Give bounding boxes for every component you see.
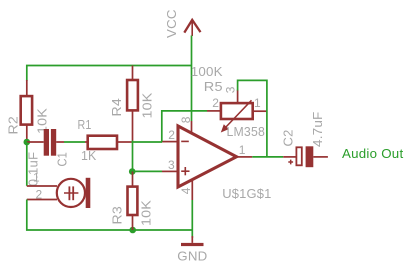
svg-text:10K: 10K bbox=[139, 200, 154, 226]
svg-text:1: 1 bbox=[254, 96, 261, 110]
label pot pin 1 bbox=[254, 96, 261, 110]
label C1 bbox=[55, 152, 70, 167]
label 10K (R3) bbox=[139, 200, 154, 226]
microphone body bbox=[57, 178, 90, 208]
svg-text:10K: 10K bbox=[140, 93, 155, 119]
wire pot pin2 net bbox=[162, 111, 207, 142]
svg-text:U$1G$1: U$1G$1 bbox=[222, 186, 271, 201]
svg-text:8: 8 bbox=[179, 116, 193, 123]
label pot pin 2 bbox=[212, 96, 219, 110]
label mic pin 2 bbox=[36, 188, 43, 202]
svg-text:1K: 1K bbox=[81, 148, 97, 163]
svg-text:LM358: LM358 bbox=[227, 124, 266, 139]
resistor R1 bbox=[88, 136, 117, 149]
label R5 bbox=[204, 79, 223, 94]
resistor R2 bbox=[21, 80, 32, 142]
label R4 bbox=[109, 98, 124, 117]
label U$1G$1 bbox=[222, 186, 271, 201]
microphone pin 1 bbox=[27, 185, 57, 187]
svg-text:3: 3 bbox=[224, 86, 238, 93]
svg-text:R2: R2 bbox=[6, 116, 21, 135]
wire op-amp pin 4 to ground bbox=[191, 200, 193, 238]
label Audio Out bbox=[342, 146, 403, 161]
label op-amp pin 3 bbox=[168, 158, 175, 172]
label op-amp pin 1 bbox=[239, 143, 246, 157]
label GND bbox=[177, 249, 207, 264]
wire top rail VCC bbox=[27, 66, 192, 82]
VCC label bbox=[164, 9, 179, 38]
wire left vertical to mic pin1 bbox=[26, 142, 28, 186]
svg-text:C1: C1 bbox=[55, 152, 70, 167]
svg-text:Audio Out: Audio Out bbox=[342, 146, 403, 161]
label 0.1uF bbox=[26, 152, 41, 187]
svg-text:4: 4 bbox=[179, 187, 193, 194]
resistor R4 bbox=[127, 66, 138, 141]
svg-text:1: 1 bbox=[239, 143, 246, 157]
svg-text:R3: R3 bbox=[110, 206, 125, 225]
svg-text:R4: R4 bbox=[109, 98, 124, 117]
label 1K bbox=[81, 148, 97, 163]
wire junction to op-amp pin 3 bbox=[132, 170, 176, 172]
svg-text:R1: R1 bbox=[78, 117, 92, 132]
label 100K bbox=[191, 64, 223, 79]
resistor R3 bbox=[128, 172, 138, 231]
label LM358 bbox=[227, 124, 266, 139]
svg-text:3: 3 bbox=[168, 158, 175, 172]
label 4.7uF bbox=[310, 112, 325, 148]
label C2 bbox=[281, 130, 296, 147]
svg-text:100K: 100K bbox=[191, 64, 223, 79]
op-amp U$1G$1 bbox=[178, 121, 237, 200]
label 10K (R2) bbox=[35, 108, 50, 134]
ground symbol bbox=[181, 236, 204, 246]
capacitor C2 bbox=[288, 146, 328, 167]
capacitor C1 bbox=[44, 129, 57, 156]
node junction R2/C1/mic bbox=[24, 139, 31, 146]
label R2 bbox=[6, 116, 21, 135]
svg-text:VCC: VCC bbox=[164, 9, 179, 38]
wire mid input net bbox=[27, 141, 177, 143]
svg-text:2: 2 bbox=[168, 128, 175, 142]
VCC symbol bbox=[184, 20, 200, 36]
microphone pin 2 bbox=[27, 199, 57, 201]
wire pot wiper to output bbox=[238, 80, 267, 156]
svg-text:1: 1 bbox=[33, 171, 40, 185]
label op-amp pin 4 bbox=[179, 187, 193, 194]
label R3 bbox=[110, 206, 125, 225]
svg-text:R5: R5 bbox=[204, 79, 223, 94]
wire mic pin2 to ground rail bbox=[27, 200, 193, 231]
wire VCC vertical to pin 8 bbox=[191, 36, 193, 122]
svg-text:GND: GND bbox=[177, 249, 207, 264]
svg-text:C2: C2 bbox=[281, 130, 296, 147]
svg-text:2: 2 bbox=[36, 188, 43, 202]
svg-text:2: 2 bbox=[212, 96, 219, 110]
label 10K (R4) bbox=[140, 93, 155, 119]
node junction R4/R3/pin3 bbox=[129, 168, 136, 175]
label op-amp pin 2 bbox=[168, 128, 175, 142]
potentiometer R5 bbox=[207, 90, 267, 133]
wire op-amp output net bbox=[237, 156, 296, 158]
wire R4-R3 vertical bbox=[132, 141, 134, 172]
svg-text:4.7uF: 4.7uF bbox=[310, 112, 325, 148]
label mic pin 1 bbox=[33, 171, 40, 185]
label op-amp pin 8 bbox=[179, 116, 193, 123]
label pot pin 3 bbox=[224, 86, 238, 93]
node junction R3 bottom bbox=[129, 227, 136, 234]
label R1 bbox=[78, 117, 92, 132]
